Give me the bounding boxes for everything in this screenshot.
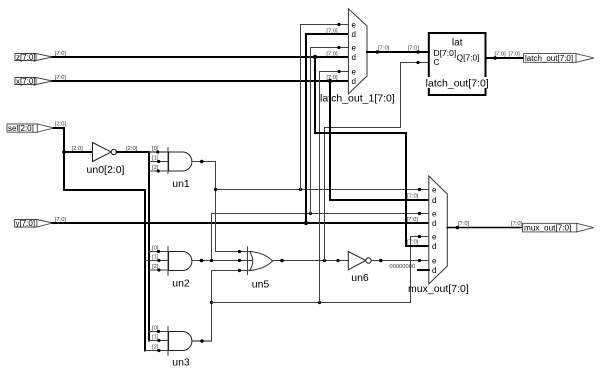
wire un2 output to or un5 in2 xyxy=(192,260,253,262)
wire sel bus vertical drop xyxy=(63,128,65,190)
inverter un6 xyxy=(348,252,371,270)
wire un2 net run to bottom mux e2 xyxy=(212,213,429,215)
svg-text:d: d xyxy=(432,196,436,205)
wire lat Q output xyxy=(486,57,524,59)
junction un2 tap2 dot xyxy=(157,268,160,271)
wire un2 tap 1 from sel xyxy=(145,260,169,262)
junction un3 output dot xyxy=(200,339,204,343)
svg-text:latch_out[7:0]: latch_out[7:0] xyxy=(525,54,573,63)
wire un3 to or un5 in3 xyxy=(212,270,252,272)
junction un5 in1 dot xyxy=(238,250,241,253)
mux mux_out xyxy=(429,176,448,284)
wire un1 riser to top mux e1 xyxy=(301,25,349,190)
junction un2 tap1 dot xyxy=(157,259,160,262)
wire un0 bus riser down xyxy=(148,152,150,341)
svg-text:e: e xyxy=(352,44,357,53)
wire un6 output to bottom mux e4 xyxy=(371,260,429,262)
input port z[7:0] xyxy=(15,53,52,62)
wire z riser to bottom mux d3 xyxy=(315,57,429,246)
wire un1 net drop xyxy=(215,162,217,252)
wire un2 riser up xyxy=(211,214,213,261)
wire bottom mux output xyxy=(447,227,522,229)
svg-text:[7:0]: [7:0] xyxy=(55,75,67,81)
inverter un0 xyxy=(93,143,117,162)
junction bottom mux e2 pin dot xyxy=(418,212,421,215)
wire un2 riser to top mux e2 xyxy=(311,48,349,214)
svg-text:un0[2:0]: un0[2:0] xyxy=(87,164,125,176)
svg-text:d: d xyxy=(352,53,356,62)
wire un3 output xyxy=(192,340,212,342)
and-gate un2 xyxy=(169,252,192,271)
output port latch_out[7:0] xyxy=(524,54,594,63)
svg-text:[7:0]: [7:0] xyxy=(326,28,338,34)
input port sel[2:0] xyxy=(7,124,54,133)
wire un1 output xyxy=(192,161,216,163)
wire constant stub to bottom mux d4 xyxy=(418,269,429,271)
wire un0 input bus xyxy=(64,151,93,153)
junction un5 output dot xyxy=(280,259,284,263)
svg-text:C: C xyxy=(434,57,440,67)
svg-text:e: e xyxy=(432,186,437,195)
svg-text:sel[2:0]: sel[2:0] xyxy=(8,124,34,133)
and-gate un3 xyxy=(169,332,192,351)
junction un2 riser tee xyxy=(210,259,213,262)
input port x[7:0] xyxy=(15,77,52,86)
junction bottom mux output dot xyxy=(456,226,460,230)
wire latch C net xyxy=(325,63,429,261)
svg-text:z[7:0]: z[7:0] xyxy=(16,53,36,62)
svg-text:un5: un5 xyxy=(252,278,270,290)
svg-text:d: d xyxy=(432,266,436,275)
svg-text:d: d xyxy=(352,77,356,86)
svg-text:[7:0]: [7:0] xyxy=(378,46,390,52)
wire un1 input bar xyxy=(167,148,169,174)
svg-text:un1: un1 xyxy=(172,178,190,190)
svg-text:d: d xyxy=(352,30,356,39)
junction bottom mux e1 pin dot xyxy=(418,188,421,191)
svg-text:d: d xyxy=(432,219,436,228)
wire x riser to bottom mux d1 xyxy=(330,81,429,200)
wire sel bus riser down xyxy=(144,190,146,351)
wire un3 input bar xyxy=(167,327,169,356)
latch lat xyxy=(429,33,486,95)
junction un3 tap0 dot xyxy=(157,330,160,333)
junction top mux e3 pin dot xyxy=(338,70,341,73)
svg-text:[7:0]: [7:0] xyxy=(511,221,523,227)
svg-text:mux_out[7:0]: mux_out[7:0] xyxy=(524,224,571,233)
svg-text:[2:0]: [2:0] xyxy=(55,122,67,128)
wire un1 tap 2 xyxy=(149,170,169,172)
and-gate un1 xyxy=(169,152,192,171)
svg-text:00000000: 00000000 xyxy=(389,264,415,270)
svg-text:[7:0]: [7:0] xyxy=(458,221,470,227)
svg-text:[2:0]: [2:0] xyxy=(72,146,84,152)
svg-text:un2: un2 xyxy=(172,278,190,290)
wire un3 net run xyxy=(212,302,411,304)
junction lat D pin dot xyxy=(416,50,420,54)
junction un2 riser2 tee xyxy=(309,212,312,215)
junction un1 output dot xyxy=(200,160,204,164)
mux latch_out_1 xyxy=(348,9,367,94)
junction un1 tap2 dot xyxy=(157,169,160,172)
svg-text:e: e xyxy=(352,21,357,30)
wire x bus to top mux d3 xyxy=(52,80,348,82)
svg-text:e: e xyxy=(352,68,357,77)
junction x riser tee xyxy=(328,79,332,83)
wire un3 riser to top mux e3 xyxy=(320,72,349,303)
junction un1 tap1 dot xyxy=(157,160,160,163)
svg-text:Q[7:0]: Q[7:0] xyxy=(457,53,480,63)
junction bottom mux e3 pin dot xyxy=(418,235,421,238)
wire un2 tap 2 xyxy=(149,269,169,271)
svg-text:[7:0]: [7:0] xyxy=(407,193,419,199)
wire sel bus horizontal xyxy=(54,127,64,129)
wire un1 tap 1 xyxy=(149,161,169,163)
junction un2 output dot xyxy=(200,259,204,263)
svg-text:d: d xyxy=(432,242,436,251)
wire un1 tap 0 xyxy=(149,151,169,153)
svg-text:latch_out_1[7:0]: latch_out_1[7:0] xyxy=(320,93,395,105)
svg-text:lat: lat xyxy=(452,38,463,49)
svg-text:[7:0]: [7:0] xyxy=(408,46,420,52)
junction un5 in3 dot xyxy=(238,269,241,272)
junction lat Q pin dot xyxy=(493,56,497,60)
svg-text:un3: un3 xyxy=(172,357,190,369)
wire y bus to bottom mux d2 xyxy=(52,222,428,224)
junction un6 output dot xyxy=(379,259,383,263)
wire sel bus horizontal run xyxy=(64,189,145,191)
junction un1 riser tee xyxy=(299,188,302,191)
junction bottom mux e4 pin dot xyxy=(418,259,421,262)
or-gate un5 xyxy=(248,247,273,275)
junction top mux output dot xyxy=(375,50,379,54)
wire un3 riser up xyxy=(211,271,213,342)
wire sel bus corner to un3 tap2 xyxy=(145,350,169,352)
junction top mux e1 pin dot xyxy=(337,23,340,26)
svg-text:[2:0]: [2:0] xyxy=(126,146,138,152)
svg-text:latch_out[7:0]: latch_out[7:0] xyxy=(426,78,489,90)
svg-text:[7:0]: [7:0] xyxy=(55,51,67,57)
wire un1 net run to bottom mux e1 xyxy=(216,189,429,191)
junction un5 in2 dot xyxy=(238,259,241,262)
wire un3 tap 0 xyxy=(149,331,169,333)
junction z riser tee xyxy=(313,55,317,59)
svg-text:[7:0]: [7:0] xyxy=(55,217,67,223)
wire un2 input bar xyxy=(167,247,169,276)
input port y[7:0] xyxy=(15,219,53,228)
junction un6 input dot xyxy=(336,259,339,262)
junction lat C pin dot xyxy=(416,61,419,64)
wire z bus to top mux d2 xyxy=(52,56,348,58)
junction un1 net corner xyxy=(214,188,217,191)
wire un1 to or un5 in1 xyxy=(216,251,252,253)
wire top mux output to lat D xyxy=(367,51,429,53)
svg-text:un6: un6 xyxy=(351,272,369,284)
svg-text:[7:0]: [7:0] xyxy=(495,51,507,57)
svg-text:y[7:0]: y[7:0] xyxy=(16,219,36,228)
svg-text:[7:0]: [7:0] xyxy=(407,239,419,245)
wire un3 riser to bottom mux e3 xyxy=(411,237,429,303)
junction un3 tap2 dot xyxy=(157,349,160,352)
wire un0 bus corner to un3 tap1 xyxy=(149,340,169,342)
junction latch C tee xyxy=(323,259,326,262)
junction y riser tee xyxy=(304,221,308,225)
wire un2 tap 0 xyxy=(149,251,169,253)
wire un5 output to un6 xyxy=(273,260,349,262)
svg-text:[7:0]: [7:0] xyxy=(326,51,338,57)
junction un3 net tee xyxy=(210,301,213,304)
junction un2 tap0 dot xyxy=(157,250,160,253)
wire un0 output bus xyxy=(117,151,149,153)
svg-text:[7:0]: [7:0] xyxy=(509,51,521,57)
svg-text:mux_out[7:0]: mux_out[7:0] xyxy=(408,283,469,295)
svg-text:x[7:0]: x[7:0] xyxy=(16,77,36,86)
junction top mux e2 pin dot xyxy=(337,46,340,49)
junction un0 input tap xyxy=(62,150,66,154)
label latch_out[7:0] xyxy=(425,77,490,90)
svg-text:e: e xyxy=(432,233,437,242)
wire y riser to top mux d1 xyxy=(306,34,348,223)
svg-text:e: e xyxy=(432,210,437,219)
junction un1 tap0 dot xyxy=(156,150,159,153)
svg-text:[7:0]: [7:0] xyxy=(407,217,419,223)
output port mux_out[7:0] xyxy=(523,223,594,232)
junction un3 riser2 tee xyxy=(318,301,321,304)
junction un3 tap1 dot xyxy=(157,339,160,342)
svg-text:e: e xyxy=(432,257,437,266)
